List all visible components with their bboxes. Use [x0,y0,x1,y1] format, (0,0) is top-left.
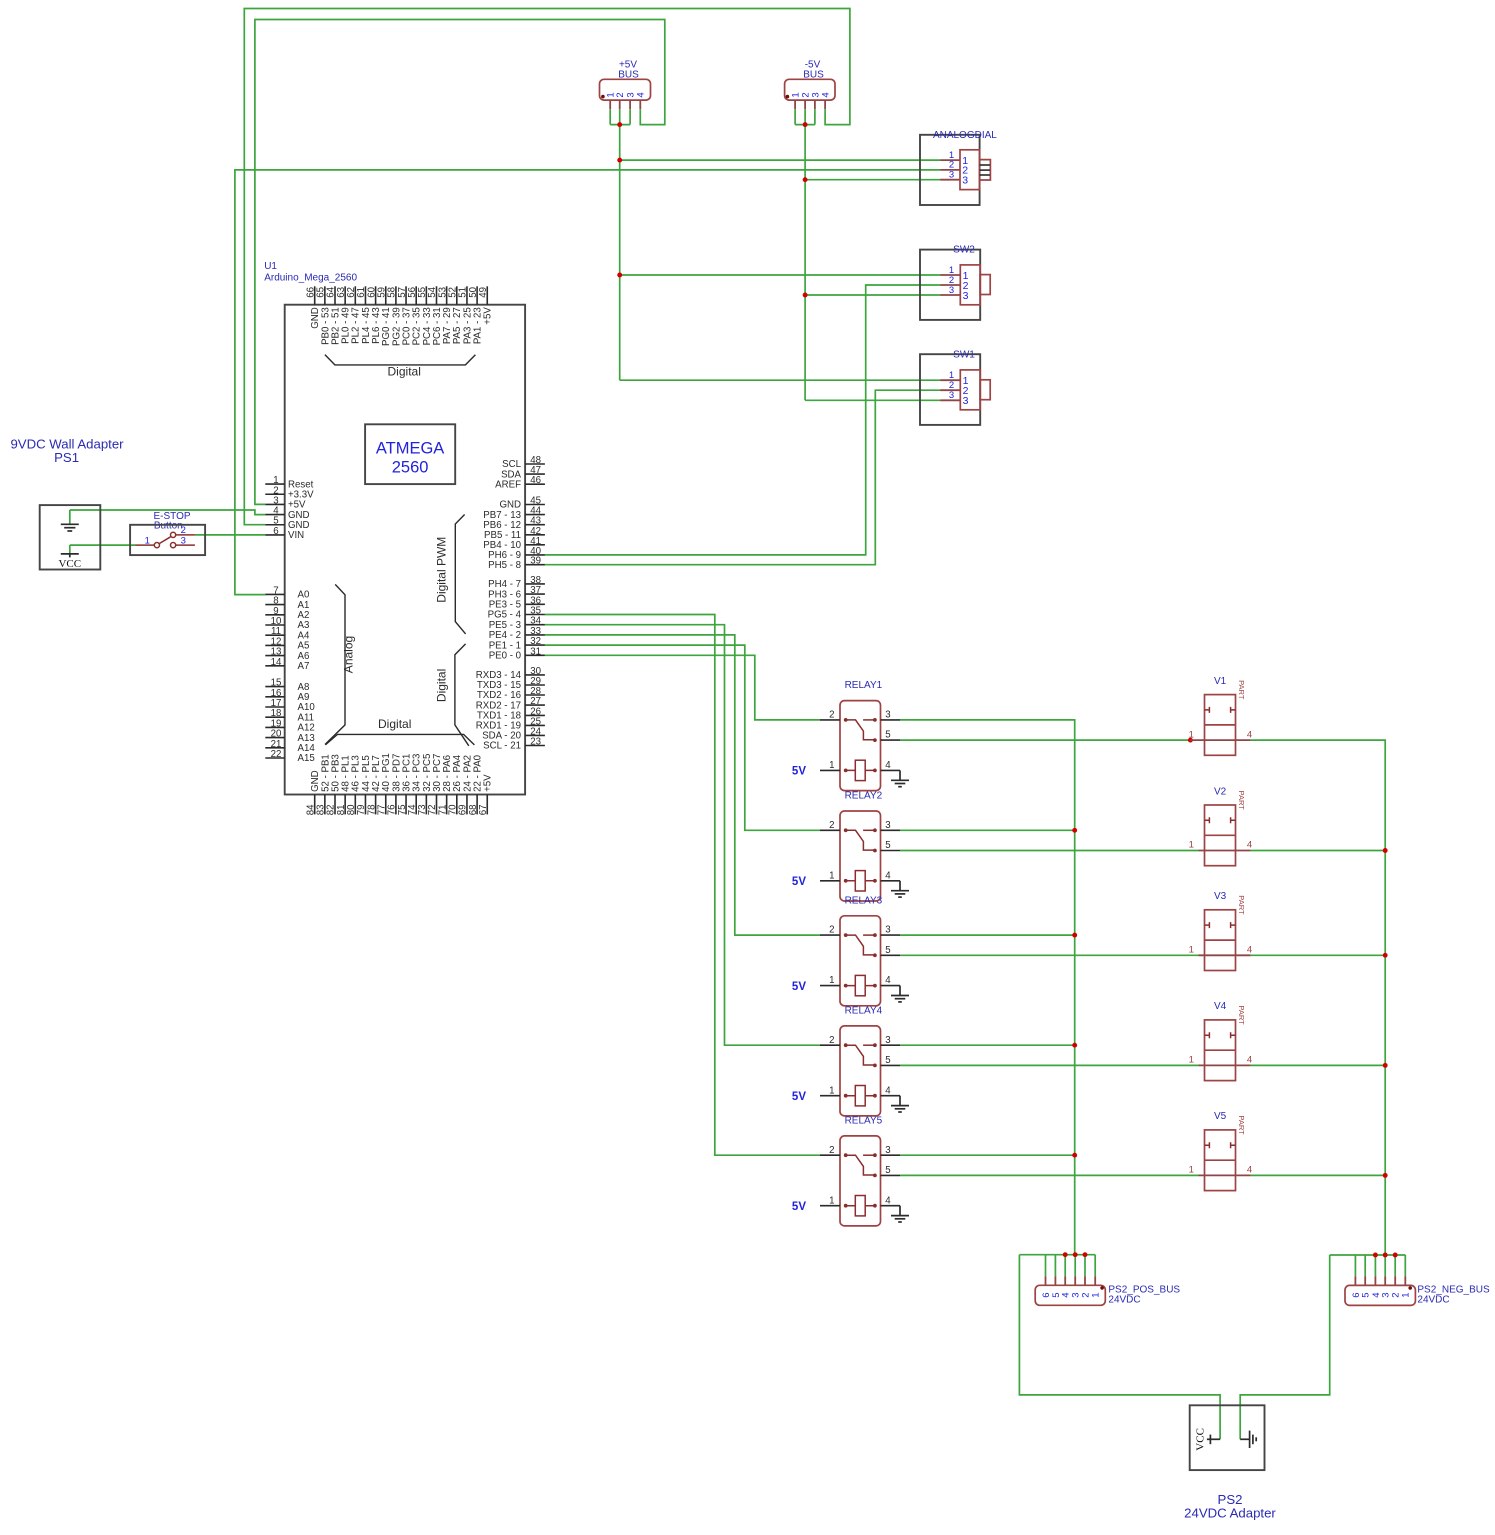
U1 pin 54 [436,286,438,304]
U1 pin 42 [525,534,545,536]
svg-text:5: 5 [885,840,890,851]
U1 pin 78 [375,795,377,815]
svg-text:4: 4 [885,1195,891,1206]
U1 pin 32 [525,644,545,646]
U1 pin 21 [265,747,284,749]
svg-text:V5: V5 [1214,1111,1227,1122]
svg-text:VCC: VCC [1195,1428,1207,1451]
svg-text:3: 3 [885,710,890,721]
U1 pin 2 [265,493,284,495]
U1 pin 66 [314,286,316,304]
RELAY4 pin 1 (5V) [820,1095,840,1097]
RELAY1 pin 5 [881,739,901,741]
wire pin35 to RELAY5 pin2 [545,615,820,1156]
RELAY2 pin 1 (5V) [820,880,840,882]
U1 pin 67 [486,795,488,815]
wire V2 pin4 to bus [1251,850,1386,852]
wire RELAY4 pin5 to V4 pin1 [900,1064,1199,1066]
U1 pin 70 [456,795,458,815]
U1 pin 23 [525,745,545,747]
RELAY5 contact symbol [844,1153,848,1157]
U1 pin 38 [525,583,545,585]
wire pin33 to RELAY3 pin2 [545,635,820,935]
wire PS2_POS_BUS stub x1065.2 [1064,1255,1066,1277]
svg-text:3: 3 [949,390,954,401]
svg-text:1: 1 [829,870,834,881]
connector SW1 [920,354,980,425]
connector SW2 [920,250,980,320]
RELAY3 pin 1 (5V) [820,985,840,987]
svg-text:1: 1 [1091,1292,1102,1297]
svg-text:3: 3 [181,535,186,546]
svg-text:V2: V2 [1214,786,1227,797]
U1 pin 71 [446,795,448,815]
junction (1074.7,830.3) [1072,828,1077,833]
U1 pin 5 [265,524,284,526]
junction (1385.2,1255.0) [1383,1253,1388,1258]
wire PS2_POS_BUS stub x1075.2 [1074,1255,1076,1277]
svg-text:1: 1 [145,535,150,546]
svg-text:PART: PART [1237,1115,1246,1135]
svg-text:67: 67 [478,805,489,816]
svg-text:5V: 5V [792,766,806,778]
U1 pin 6 [265,534,284,536]
wire +5V to ANALOGDIAL pin1 [620,159,940,161]
ATMEGA 2560 label box [365,424,455,484]
svg-text:1: 1 [829,975,834,986]
RELAY1 pin 2 [820,719,840,721]
svg-text:2: 2 [615,92,626,97]
RELAY2 pin 2 [820,829,840,831]
U1 pin 80 [354,795,356,815]
junction (1385.2,1065.4) [1383,1063,1388,1068]
svg-text:4: 4 [636,92,647,97]
RELAY4 pin 2 [820,1044,840,1046]
wire PS2_NEG_BUS stub x1395.2 [1394,1255,1396,1276]
U1 pin 43 [525,524,545,526]
svg-text:Button: Button [154,521,183,532]
RELAY3 pin 4 [881,985,901,987]
U1 pin 44 [525,514,545,516]
svg-text:Analog: Analog [341,636,355,673]
RELAY4 coil [844,1094,848,1098]
svg-text:Digital: Digital [378,717,411,731]
wire -5V to SW1 pin3 [805,399,940,401]
svg-text:1: 1 [829,1085,834,1096]
bracket Digital (top) [325,355,476,365]
VCC symbol in PS1 [61,553,79,555]
U1 pin 35 [525,614,545,616]
bracket Digital (bottom) [325,734,474,745]
junction (619.7,124.6) [617,122,622,127]
U1 pin 7 [265,593,284,595]
wire RELAY4 pin3 to bus [900,1044,1075,1046]
svg-text:2560: 2560 [392,459,429,477]
U1 pin 61 [364,286,366,304]
U1 pin 74 [415,795,417,815]
wire pin31 to RELAY1 pin2 [545,655,820,720]
U1 pin 68 [476,795,478,815]
svg-text:5: 5 [885,945,890,956]
V3 pins 1,4 [1199,954,1251,956]
ground symbol in PS2 [1240,1438,1249,1440]
U1 pin 79 [364,795,366,815]
svg-text:BUS: BUS [618,70,639,81]
U1 pin 52 [456,286,458,304]
wire +5V BUS pins1-3 join [610,109,630,124]
U1 pin 59 [385,286,387,304]
svg-text:U1: U1 [264,261,277,272]
svg-text:46: 46 [530,475,541,486]
junction (619.7,160.1) [617,158,622,163]
svg-text:5: 5 [885,730,890,741]
svg-text:+5V: +5V [483,307,494,325]
wire RELAY5 pin3 to bus [900,1154,1075,1156]
U1 pin 63 [344,286,346,304]
junction (1065.2,1254.7) [1063,1252,1068,1257]
wire PS2_POS_BUS stub x1095.2 [1094,1255,1096,1277]
V4 pins 1,4 [1199,1064,1251,1066]
RELAY5 pin 1 (5V) [820,1205,840,1207]
RELAY2 pin 5 [881,850,901,852]
RELAY4 pin 5 [881,1064,901,1066]
svg-text:3: 3 [885,1145,890,1156]
U1 pin 47 [525,473,545,475]
svg-text:39: 39 [530,556,541,567]
svg-text:4: 4 [885,975,891,986]
U1 pin 77 [385,795,387,815]
svg-text:2: 2 [829,820,834,831]
svg-text:2: 2 [829,710,834,721]
connector PS2_POS_BUS [1035,1285,1105,1305]
junction (619.7,275.0) [617,273,622,278]
svg-text:3: 3 [963,395,969,407]
wire PS2_POS_BUS stub x1085.0 [1084,1255,1086,1277]
U1 pin 16 [265,696,284,698]
VCC symbol in PS2 [1210,1438,1220,1440]
wire RELAY2 pin5 to V2 pin1 [900,850,1199,852]
U1 pin 41 [525,544,545,546]
svg-text:RELAY1: RELAY1 [845,680,883,691]
wire PS2_NEG_BUS stub x1365.2 [1364,1255,1366,1276]
svg-text:3: 3 [949,170,954,181]
RELAY5 pin 5 [881,1174,901,1176]
svg-text:6: 6 [273,526,278,537]
svg-text:1: 1 [1189,729,1194,740]
U1 pin 11 [265,634,284,636]
svg-text:Digital: Digital [388,365,421,379]
junction (1075.2,1254.7) [1073,1252,1078,1257]
svg-text:24VDC: 24VDC [1108,1295,1140,1306]
ground at RELAY5 pin 4 [899,1206,901,1216]
wire GND net: pin5 to -5V BUS pin4 over the top [244,9,850,525]
svg-text:5V: 5V [792,1091,806,1103]
wire V3 pin4 to bus [1251,954,1386,956]
svg-text:4: 4 [885,870,891,881]
wire +5V rail vertical [619,125,621,381]
U1 pin 29 [525,684,545,686]
svg-text:23: 23 [530,737,541,748]
U1 pin 15 [265,686,284,688]
wire PS1 GND to pin4 [70,510,265,524]
ground at RELAY3 pin 4 [899,986,901,996]
wire PS2_NEG_BUS to PS2 adapter GND [1240,1255,1330,1439]
U1 pin 65 [324,286,326,304]
U1 pin 22 [265,757,284,759]
RELAY2 pin 4 [881,880,901,882]
svg-text:14: 14 [271,657,282,668]
U1 pin 37 [525,593,545,595]
junction (1074.7,1155.2) [1072,1153,1077,1158]
U1 pin 53 [446,286,448,304]
U1 pin 14 [265,665,284,667]
svg-text:PART: PART [1237,791,1246,811]
junction (805.1,295.0) [803,293,808,298]
wire RELAY3 pin5 to V3 pin1 [900,954,1199,956]
U1 pin 34 [525,624,545,626]
junction (805.1,179.7) [803,177,808,182]
wire pin39 PH5-8 to SW1 pin2 [545,390,940,565]
svg-text:4: 4 [821,92,832,97]
U1 pin 81 [344,795,346,815]
U1 pin 62 [354,286,356,304]
svg-text:1: 1 [1401,1293,1412,1298]
svg-text:PART: PART [1237,680,1246,700]
wire PS2_NEG_BUS stub x1375.4 [1374,1255,1376,1276]
svg-text:5: 5 [885,1055,890,1066]
U1 pin 40 [525,554,545,556]
RELAY1 pin 4 [881,769,901,771]
wire PS2_NEG_BUS stub x1405.3 [1404,1255,1406,1276]
wire PS2_POS_BUS to PS2 adapter VCC [1019,1255,1220,1440]
RELAY5 pin 3 [881,1154,901,1156]
RELAY2 coil [844,879,848,883]
wire RELAY pin3 bus vertical to PS2_POS_BUS [900,720,1075,1255]
junction (1395.2,1255.0) [1393,1253,1398,1258]
svg-text:22: 22 [271,749,282,760]
E-STOP lever [159,537,170,544]
RELAY2 pin 3 [881,829,901,831]
wire PS2_POS_BUS bar [1019,1254,1095,1256]
svg-text:2: 2 [829,1035,834,1046]
U1 pin 76 [395,795,397,815]
U1 pin 12 [265,644,284,646]
U1 pin 17 [265,706,284,708]
RELAY4 pin 4 [881,1095,901,1097]
svg-text:AREF: AREF [495,479,521,490]
svg-text:ANALOGDIAL: ANALOGDIAL [933,130,997,141]
wire PS2_NEG_BUS bar [1330,1254,1406,1256]
U1 pin 36 [525,603,545,605]
U1 pin 10 [265,624,284,626]
svg-text:3: 3 [949,285,954,296]
U1 pin 60 [375,286,377,304]
ground at RELAY1 pin 4 [899,770,901,780]
U1 pin 1 [265,483,284,485]
svg-text:SCL - 21: SCL - 21 [483,741,521,752]
RELAY2 contact symbol [844,828,848,832]
V2 pins 1,4 [1199,850,1251,852]
wire -5V to ANALOGDIAL pin3 [805,179,940,181]
svg-text:PE0 - 0: PE0 - 0 [489,651,522,662]
bracket Analog (left) [325,584,345,744]
V1 pins 1,4 [1190,739,1250,741]
U1 pin 3 [265,503,284,505]
ground symbol in PS1 [61,523,79,525]
U1 pin 24 [525,734,545,736]
U1 pin 72 [436,795,438,815]
wire +5V to SW2 pin1 [620,274,940,276]
U1 pin 58 [395,286,397,304]
connector ANALOGDIAL [920,135,980,205]
svg-text:Arduino_Mega_2560: Arduino_Mega_2560 [264,272,357,283]
U1 pin 45 [525,504,545,506]
U1 pin 20 [265,737,284,739]
svg-text:VCC: VCC [58,558,81,570]
svg-text:4: 4 [1247,1165,1252,1176]
power supply PS2 24VDC Adapter [1190,1405,1265,1470]
E-STOP pin 3 [171,543,176,548]
wire +5V net: pin3 to +5V BUS pin4 [255,20,665,505]
svg-text:3: 3 [963,290,969,302]
U1 pin 84 [314,795,316,815]
wire +5V to SW1 pin1 [620,379,940,381]
junction (1385.2,955.3000000000001) [1383,953,1388,958]
svg-text:49: 49 [478,287,489,298]
svg-text:3: 3 [885,925,890,936]
RELAY1 pin 1 (5V) [820,769,840,771]
E-STOP pin 1 [136,544,155,546]
svg-text:4: 4 [1247,1055,1252,1066]
svg-text:A7: A7 [298,661,310,672]
svg-text:1: 1 [829,760,834,771]
junction (1074.7,935.1) [1072,933,1077,938]
U1 pin 57 [405,286,407,304]
wire PS2_NEG_BUS stub x1355.4 [1354,1255,1356,1276]
U1 pin 50 [476,286,478,304]
svg-text:RELAY4: RELAY4 [845,1005,883,1016]
RELAY4 pin 3 [881,1044,901,1046]
RELAY5 pin 2 [820,1154,840,1156]
svg-text:BUS: BUS [803,70,824,81]
svg-text:V3: V3 [1214,891,1227,902]
U1 pin 64 [334,286,336,304]
svg-text:24VDC Adapter: 24VDC Adapter [1184,1506,1276,1521]
wire PS2_POS_BUS stub x1055.4 [1054,1255,1056,1277]
svg-text:SW2: SW2 [953,245,975,256]
U1 pin 27 [525,704,545,706]
wire PS2_POS_BUS stub x1045.5 [1045,1255,1047,1277]
U1 pin 18 [265,716,284,718]
wire -5V to SW2 pin3 [805,294,940,296]
U1 pin 46 [525,483,545,485]
U1 pin 55 [425,286,427,304]
svg-text:RELAY2: RELAY2 [845,791,883,802]
V5 pins 1,4 [1199,1174,1251,1176]
U1 pin 33 [525,634,545,636]
svg-text:4: 4 [885,1085,891,1096]
svg-text:ATMEGA: ATMEGA [376,440,444,458]
ground at RELAY4 pin 4 [899,1096,901,1106]
RELAY5 coil [844,1204,848,1208]
svg-text:Digital PWM: Digital PWM [434,537,448,603]
svg-text:5V: 5V [792,981,806,993]
wire pin34 to RELAY4 pin2 [545,625,820,1045]
svg-text:3: 3 [885,820,890,831]
U1 pin 28 [525,694,545,696]
wire V5 pin4 to bus [1251,1174,1386,1176]
svg-text:PART: PART [1237,895,1246,915]
wire pin32 to RELAY2 pin2 [545,645,820,830]
RELAY1 contact symbol [844,718,848,722]
svg-text:4: 4 [1247,840,1252,851]
connector -5V BUS [785,79,835,100]
U1 pin 39 [525,564,545,566]
U1 pin 75 [405,795,407,815]
svg-text:24VDC: 24VDC [1417,1295,1449,1306]
svg-text:1: 1 [1189,1165,1194,1176]
U1 pin 19 [265,726,284,728]
svg-text:4: 4 [885,760,891,771]
svg-text:5V: 5V [792,876,806,888]
svg-text:1: 1 [829,1195,834,1206]
svg-text:Digital: Digital [434,669,448,702]
wire RELAY2 pin3 to bus [900,829,1075,831]
svg-text:2: 2 [829,925,834,936]
wire ANALOGDIAL pin2 to A0 [235,170,940,595]
U1 pin 26 [525,714,545,716]
U1 pin 56 [415,286,417,304]
U1 pin 13 [265,655,284,657]
connector PS2_NEG_BUS [1345,1285,1415,1305]
bracket Digital (right lower) [455,644,469,746]
U1 pin 8 [265,604,284,606]
svg-text:A15: A15 [298,753,315,764]
svg-text:V4: V4 [1214,1001,1227,1012]
wire V1 pin4 to PS2_NEG_BUS vertical [1251,740,1386,1255]
svg-text:PS1: PS1 [54,450,79,465]
wire -5V BUS pins1-3 join [795,109,815,124]
RELAY4 contact symbol [844,1043,848,1047]
svg-text:4: 4 [1247,945,1252,956]
U1 pin 83 [324,795,326,815]
RELAY1 pin 3 [881,719,901,721]
svg-text:1: 1 [1189,945,1194,956]
svg-text:5V: 5V [792,1201,806,1213]
svg-text:4: 4 [1247,729,1252,740]
wire pin40 PH6-9 to SW2 pin2 [545,285,940,555]
RELAY3 coil [844,984,848,988]
RELAY3 pin 5 [881,954,901,956]
wire V4 pin4 to bus [1251,1064,1386,1066]
svg-text:VIN: VIN [288,530,304,541]
wire E-STOP pin2 to VIN [195,534,265,536]
U1 pin 49 [486,286,488,304]
wire PS2_NEG_BUS stub x1385.2 [1384,1255,1386,1276]
RELAY1 coil [844,769,848,773]
U1 pin 31 [525,654,545,656]
wire PS1 VCC to E-STOP pin1 [70,545,136,554]
junction (1085.0,1254.7) [1083,1252,1088,1257]
svg-text:1: 1 [1189,840,1194,851]
svg-text:2: 2 [829,1145,834,1156]
svg-text:1: 1 [1189,1055,1194,1066]
junction (1385.2,850.5) [1383,848,1388,853]
svg-text:PH5 - 8: PH5 - 8 [488,560,521,571]
junction (1375.4,1255.0) [1373,1253,1378,1258]
U1 pin 9 [265,614,284,616]
junction (1074.7,1045.2) [1072,1043,1077,1048]
